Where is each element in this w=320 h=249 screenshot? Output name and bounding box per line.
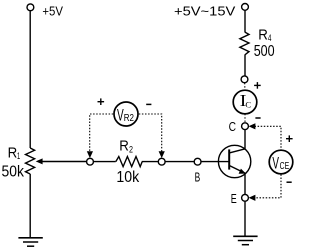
svg-text:R: R [8, 145, 18, 161]
svg-text:1: 1 [17, 151, 20, 162]
VCE arrow top [249, 123, 256, 129]
wire right rail top [244, 10, 246, 32]
svg-text:2: 2 [129, 144, 133, 155]
node C [242, 123, 249, 130]
VR2 dashed lead left [90, 114, 114, 152]
terminal +5V (top-left) [27, 4, 34, 11]
VR2 dashed lead right [139, 114, 162, 152]
svg-text:R: R [119, 139, 129, 155]
node B [194, 158, 201, 165]
wire node to R2 [93, 161, 115, 163]
svg-text:500: 500 [254, 43, 275, 60]
VR2 arrow right [159, 151, 165, 158]
svg-text:R2: R2 [124, 113, 134, 124]
ground (right) [233, 236, 257, 244]
dashed link ammeter to node C [244, 114, 246, 123]
voltmeter VR2 [114, 102, 138, 126]
wire left rail bottom [29, 174, 31, 238]
svg-text:+5V: +5V [42, 4, 63, 19]
wire collector [244, 130, 246, 150]
wire left rail top [29, 11, 31, 148]
svg-text:E: E [231, 191, 237, 206]
ground (left) [18, 238, 42, 246]
svg-text:R: R [258, 28, 268, 44]
transistor Q1 [218, 145, 250, 177]
svg-text:+5V~15V: +5V~15V [174, 4, 236, 19]
VCE dashed lead top [255, 126, 282, 149]
svg-text:C: C [229, 119, 236, 134]
VCE arrow bottom [249, 195, 256, 201]
svg-text:V: V [272, 154, 279, 173]
wire emitter to ground [244, 201, 246, 236]
ammeter IC [233, 90, 257, 114]
resistor R2 [116, 157, 142, 167]
voltmeter VCE [269, 150, 293, 174]
VCE dashed lead bottom [255, 174, 282, 197]
wire R4 to node [244, 55, 246, 76]
ammeter minus sign [255, 117, 260, 119]
wire node B to base [201, 161, 229, 163]
svg-text:10k: 10k [116, 169, 139, 186]
resistor R1 (potentiometer) [26, 148, 35, 174]
wire node to node B [165, 161, 194, 163]
wire emitter [244, 173, 246, 194]
terminal +5V~15V (top-right) [242, 4, 249, 11]
wire R2 to node [142, 161, 159, 163]
node (right of R2) [158, 158, 165, 165]
svg-text:C: C [245, 99, 251, 109]
resistor R4 [240, 32, 249, 55]
VR2 plus sign [98, 98, 105, 105]
dashed link node to ammeter [244, 83, 246, 90]
svg-text:CE: CE [280, 161, 290, 172]
node (ammeter top) [241, 76, 248, 83]
svg-text:50k: 50k [2, 164, 25, 181]
VCE minus sign [287, 181, 292, 183]
VCE plus sign [286, 135, 293, 142]
VR2 minus sign [146, 103, 151, 105]
potentiometer wiper arrow [36, 158, 43, 164]
svg-text:B: B [195, 170, 201, 185]
node (left of R2) [87, 158, 94, 165]
VR2 arrow left [87, 151, 93, 158]
node E [242, 194, 249, 201]
ammeter plus sign [254, 82, 261, 89]
wire wiper to node [42, 161, 88, 163]
